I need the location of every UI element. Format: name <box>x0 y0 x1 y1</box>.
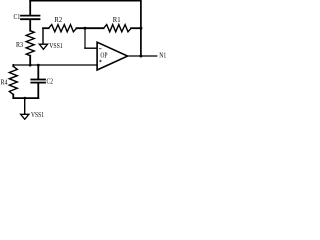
svg-text:VSS1: VSS1 <box>31 112 44 119</box>
svg-text:N1: N1 <box>159 52 166 59</box>
svg-text:C2: C2 <box>47 79 54 86</box>
svg-text:C1: C1 <box>14 14 21 21</box>
svg-text:R4: R4 <box>1 79 9 86</box>
svg-text:R1: R1 <box>113 17 121 24</box>
svg-text:R2: R2 <box>54 17 62 24</box>
svg-text:VSS1: VSS1 <box>49 43 63 50</box>
svg-text:OP: OP <box>100 50 107 59</box>
svg-text:R3: R3 <box>16 42 24 49</box>
